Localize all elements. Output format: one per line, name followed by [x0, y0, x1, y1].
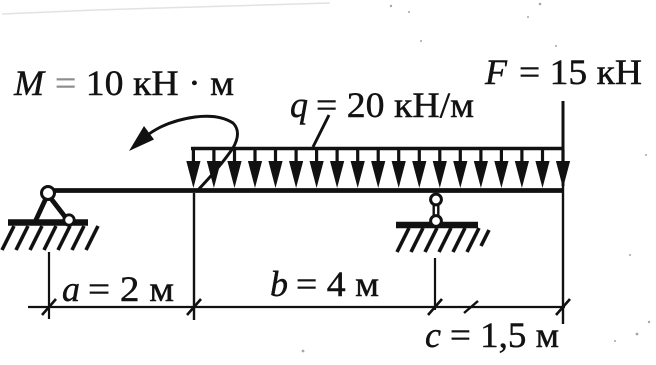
stray tick	[464, 301, 478, 313]
extension line at support A	[48, 252, 50, 319]
extension line at load start	[193, 193, 195, 320]
q arrow 15	[479, 150, 482, 165]
q arrow 10	[377, 150, 380, 165]
q arrow 18	[541, 150, 544, 165]
roller support B lower circle	[431, 216, 442, 227]
extension line at support B	[434, 258, 436, 310]
q arrow 13	[438, 150, 441, 165]
svg-text:= 2 м: = 2 м	[88, 269, 174, 309]
q arrow 5	[274, 150, 277, 165]
q arrow 17	[520, 150, 523, 165]
pin support A hinge circle	[42, 187, 55, 200]
pin support A hatching	[2, 226, 98, 250]
svg-text:= 15 кН: = 15 кН	[519, 52, 642, 92]
svg-text:F: F	[484, 52, 508, 92]
q arrow 12	[418, 150, 421, 165]
roller support B link	[433, 203, 435, 218]
faded equals scan artifact over M label	[53, 77, 77, 94]
pin support A ground bar	[8, 219, 88, 226]
tick at B	[428, 299, 442, 315]
tick at A	[42, 299, 56, 315]
pin support A triangle	[35, 196, 66, 222]
svg-text:a: a	[62, 269, 80, 309]
moment arc M	[149, 116, 238, 191]
moment arrowhead	[129, 126, 154, 151]
dimension main line	[28, 306, 565, 308]
force F arrowhead	[558, 161, 569, 188]
tick at F	[556, 299, 570, 315]
pin support A small roller circle	[64, 215, 74, 225]
beam	[46, 188, 564, 193]
roller support B ground bar	[396, 222, 478, 229]
q arrow 8	[336, 150, 339, 165]
extension line at F	[562, 186, 564, 324]
svg-text:= 10 кН · м: = 10 кН · м	[55, 63, 234, 103]
q arrow 4	[253, 150, 256, 165]
q arrow 9	[356, 150, 359, 165]
roller support B upper circle	[431, 194, 442, 205]
scan smudge top line	[2, 3, 330, 14]
svg-text:q: q	[290, 85, 308, 125]
q arrow 6	[295, 150, 298, 165]
q arrow 3	[233, 150, 236, 165]
q arrow 1	[192, 150, 195, 165]
svg-text:M: M	[13, 63, 46, 103]
distributed load q arrows	[186, 150, 570, 188]
q arrow 16	[500, 150, 503, 165]
svg-text:c: c	[425, 315, 441, 355]
svg-text:b: b	[270, 264, 288, 304]
svg-text:= 1,5 м: = 1,5 м	[450, 315, 559, 355]
q arrow 14	[459, 150, 462, 165]
tick at load start	[187, 299, 201, 315]
q arrow 7	[315, 150, 318, 165]
q arrow 2	[212, 150, 215, 165]
q leader line	[313, 115, 329, 147]
q arrow 19	[561, 150, 564, 165]
svg-text:= 4 м: = 4 м	[296, 264, 379, 304]
q arrow 11	[397, 150, 400, 165]
force F line	[562, 101, 565, 186]
svg-text:= 20 кН/м: = 20 кН/м	[316, 85, 474, 125]
scan speckles	[302, 3, 651, 353]
distributed load q top line	[191, 147, 563, 150]
roller support B hatching	[397, 228, 489, 252]
